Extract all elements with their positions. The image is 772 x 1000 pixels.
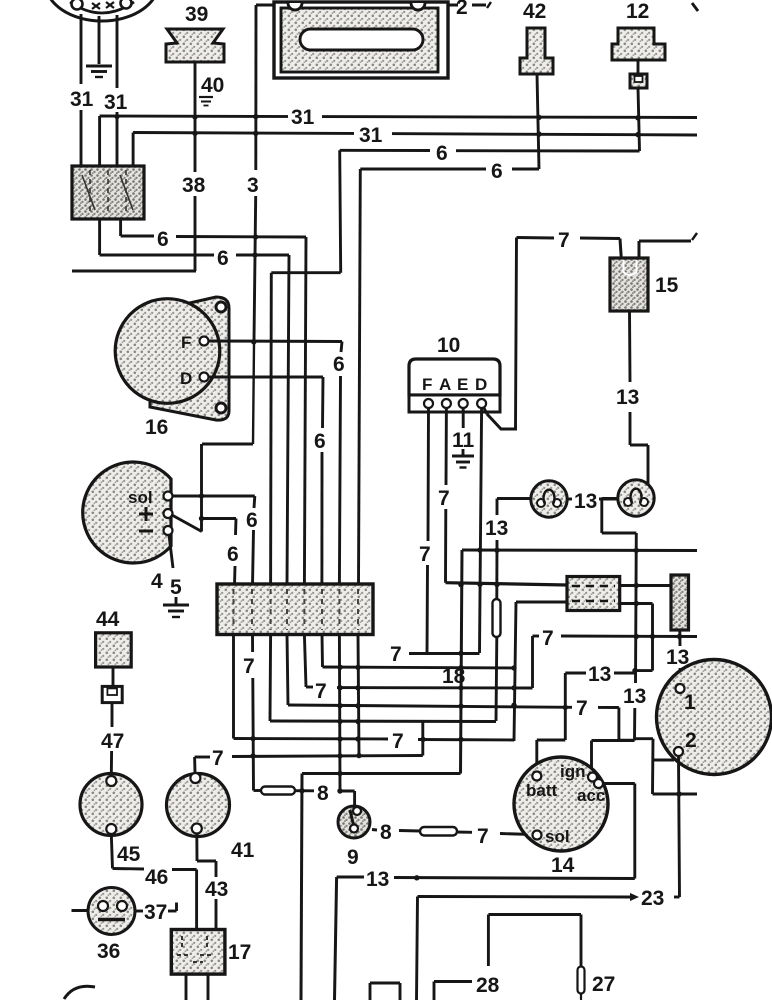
arc bottom-left (component off page) (64, 986, 95, 999)
svg-text:7: 7 (419, 543, 431, 566)
svg-text:6: 6 (227, 543, 239, 566)
wire 44 to connector 47 (112, 667, 115, 687)
wire 6 D to pin6 horizontal (208, 376, 323, 379)
distributor cap terminal circles (72, 0, 132, 10)
svg-text:7: 7 (558, 229, 570, 252)
wire 6 no.2 horizontal (42 to pin8) (360, 168, 539, 171)
wire 6 from 42 down (537, 74, 539, 169)
svg-text:47: 47 (101, 730, 124, 753)
regulator terminal circles (424, 399, 486, 408)
svg-text:40: 40 (201, 74, 224, 97)
generator 16 body (115, 299, 220, 404)
wire 7 regulator F terminal down (427, 408, 429, 654)
wire 6 no.3 drop to connector pin5 (304, 237, 306, 585)
inline fuse capsule (sol wire) (420, 827, 457, 836)
terminal minus of 4 (164, 526, 173, 535)
wire 7 joining F and D bottoms (409, 652, 480, 655)
wire 37 from 36 right (135, 903, 177, 912)
plus sign label (139, 507, 153, 521)
battery 2 outer case (274, 2, 448, 78)
svg-text:15: 15 (655, 274, 679, 297)
capsule connector 27 (578, 967, 585, 1000)
wire 6 from 12 down (638, 88, 640, 151)
wire 8 7 from 9 to ignition sol (372, 830, 533, 835)
svg-text:6: 6 (157, 228, 169, 251)
wire 36 left stub (72, 909, 89, 912)
lamp 36 body (88, 888, 135, 935)
generator terminal F (181, 333, 209, 352)
wire resistor lower-left to riser (514, 602, 567, 741)
small U stub bottom centre (370, 983, 400, 1000)
connector pin7 wire down to 8 line (338, 635, 342, 792)
bus 31 no.1 horizontal (100, 116, 697, 118)
svg-text:D: D (475, 375, 487, 394)
wire 38 bottom run to left (72, 270, 196, 273)
wire staircase to terminal 2 side (635, 739, 698, 794)
svg-text:F: F (422, 375, 432, 394)
svg-text:16: 16 (145, 416, 168, 439)
wire 13 bar down to terminal 1 (678, 630, 681, 684)
svg-text:7: 7 (392, 730, 404, 753)
label 38 (181, 172, 208, 197)
connector 47 (small plug) (102, 686, 122, 702)
wire 7 riser pin5 line (531, 636, 534, 688)
svg-text:2: 2 (456, 0, 468, 19)
svg-text:37: 37 (144, 901, 167, 924)
label 13 (between lamps) (568, 490, 618, 513)
svg-text:31: 31 (359, 124, 383, 147)
svg-text:7: 7 (438, 487, 450, 510)
wire 31 left distributor to coil (80, 14, 83, 166)
terminal 2 (674, 729, 697, 756)
generator terminal D (180, 369, 209, 388)
svg-text:5: 5 (170, 576, 182, 599)
wire D terminal diagonal to riser (484, 408, 517, 429)
svg-text:E: E (457, 375, 468, 394)
label 31 (bus2) (354, 122, 392, 147)
headlamp circle right (terminals 1 2) (657, 660, 772, 775)
svg-text:27: 27 (592, 973, 615, 996)
svg-text:7: 7 (477, 825, 489, 848)
svg-text:17: 17 (228, 941, 251, 964)
svg-text:A: A (439, 375, 451, 394)
wire fuse 15 right lead to edge (639, 233, 697, 262)
svg-text:6: 6 (436, 142, 448, 165)
wire resistor lower-right staircase (620, 604, 653, 671)
fuse box 44 (96, 633, 132, 667)
wire 6 no.4 coil left terminal down (98, 219, 101, 255)
svg-text:9: 9 (347, 846, 359, 869)
svg-text:7: 7 (390, 643, 402, 666)
ground symbol 5 (163, 597, 189, 617)
wire 13 corner down to bottom edge (335, 877, 337, 1000)
wire 6 no.2 drop to connector pin8 (359, 169, 361, 585)
gauge 41 body (167, 773, 230, 837)
svg-text:sol: sol (545, 827, 570, 846)
svg-text:31: 31 (291, 106, 315, 129)
bus 31 no.2 horizontal (133, 133, 697, 136)
flasher box 17 (171, 930, 225, 975)
connector pin4 fan wire y705 (287, 635, 619, 708)
connector pin8 wire down to 7 line (358, 635, 359, 756)
svg-text:acc: acc (577, 786, 605, 805)
svg-text:42: 42 (523, 0, 546, 23)
ground symbol (distributor) (86, 66, 112, 77)
distributor (top, cut off) body (45, 0, 159, 21)
wire 12 to its connector (637, 60, 640, 75)
wire acc staircase down (603, 784, 635, 879)
wire minus terminal to ground 5 (169, 535, 173, 568)
inline connector capsule on 13 wire (493, 599, 501, 637)
svg-text:39: 39 (185, 3, 208, 26)
gauge 45 body (80, 774, 142, 836)
small connector below 12 (630, 74, 647, 88)
terminal plus of 4 (164, 509, 173, 518)
svg-text:13: 13 (616, 386, 639, 409)
wire 6 F to pin7 horizontal (208, 340, 342, 344)
minus sign label (139, 530, 153, 533)
wire 43 from 41 to box 17 (197, 834, 216, 930)
svg-text:36: 36 (97, 940, 120, 963)
wire 7 corner into 41 top (193, 757, 196, 773)
svg-text:8: 8 (380, 821, 392, 844)
horn 39 body (166, 29, 224, 62)
inline fuse capsule (pin2 wire) (261, 787, 295, 795)
svg-text:28: 28 (476, 974, 500, 997)
wire 13 lamp A to capsule drop (496, 499, 531, 722)
wire 13 bus y877 (337, 877, 635, 879)
svg-text:batt: batt (526, 781, 558, 800)
indicator 9 body (338, 806, 370, 838)
wire 6 F drop to connector pin7 (339, 342, 342, 586)
fuse 15 body (610, 258, 648, 311)
wire 7 riser D to fuse bus (516, 238, 517, 430)
wire 6 D drop to connector pin6 (322, 377, 323, 585)
wire 38 from horn down (194, 62, 197, 271)
wire 6 sol to connector pin2 (172, 496, 255, 585)
wire 23 left drop to bottom edge (417, 897, 418, 1000)
svg-text:1: 1 (684, 691, 696, 714)
wire lamp B zigzag down (602, 499, 637, 741)
wire 8 horizontal with fuse capsule (254, 791, 355, 807)
wire 6 no.3 horizontal (121, 236, 306, 237)
wire 3 corner to plus terminal (171, 444, 253, 532)
wire 31 right distributor to coil (116, 15, 119, 166)
terminal acc (577, 779, 605, 805)
generator 16 mounting plate (150, 297, 229, 420)
regulator terminal letters F A E D (422, 375, 487, 394)
wire 7 horizontal y636 (533, 635, 698, 638)
terminal sol of 4 (164, 492, 173, 501)
wire 13 fuse 15 down (630, 311, 649, 484)
svg-text:8: 8 (317, 782, 329, 805)
svg-text:6: 6 (333, 353, 345, 376)
label 31 (bus1) (288, 104, 322, 129)
wire resistor upper-right to bar (620, 584, 671, 587)
ground symbol 11 (452, 449, 474, 468)
wire 6 no.1 drop to connector pin3 (269, 273, 273, 585)
wire 28 27 inverted U component (488, 915, 581, 967)
wire ign staircase (592, 741, 635, 773)
svg-text:13: 13 (574, 490, 597, 513)
svg-text:10: 10 (437, 334, 460, 357)
wire 7 y755 to gauge 41 (195, 756, 423, 758)
wire batt staircase (537, 673, 566, 772)
wire regulator A to resistor (446, 583, 568, 585)
svg-text:45: 45 (117, 843, 141, 866)
svg-text:13: 13 (485, 517, 508, 540)
connector plug 42 (520, 28, 553, 74)
wire 6 no.1 jog left at y272.7 (271, 271, 340, 274)
ignition coil (hatched box) (72, 166, 144, 219)
wire 6 no.4 horizontal (100, 254, 289, 257)
terminal batt (526, 772, 558, 801)
connector pin1 fan wire y738 (234, 635, 515, 741)
svg-text:14: 14 (551, 854, 575, 877)
warning lamp A body (531, 481, 567, 517)
wire pin4 branch right staircase (619, 708, 635, 741)
wire riser joining y721 and y755 (421, 722, 424, 756)
connector pin2 fan wire to fuse 8 (253, 635, 254, 791)
terminal ign (560, 762, 597, 782)
wire battery top-left stub (256, 4, 274, 7)
tick mark top right (692, 3, 698, 11)
svg-text:F: F (181, 333, 191, 352)
terminal 1 (676, 684, 697, 714)
svg-text:46: 46 (145, 866, 168, 889)
svg-text:12: 12 (626, 0, 649, 23)
bus 31 no.2 corner down into coil (132, 133, 135, 167)
wire 3 battery left down (253, 5, 256, 444)
svg-text:3: 3 (247, 174, 259, 197)
svg-text:7: 7 (243, 655, 255, 678)
ground symbol 40 (199, 97, 213, 106)
svg-text:44: 44 (96, 608, 120, 631)
wire 18 vertical (301, 550, 462, 1000)
wire fuse 15 left lead (620, 239, 622, 263)
svg-text:6: 6 (491, 160, 503, 183)
wire 7 regulator A terminal down (444, 408, 448, 583)
wire E terminal to ground 11 (462, 408, 465, 428)
wire 7 regulator D terminal down (480, 408, 482, 653)
wire 47 down to gauge 45 (110, 703, 114, 776)
bus 31 no.1 corner down into coil (98, 116, 101, 166)
connector plug 12 (612, 28, 665, 60)
svg-text:6: 6 (246, 509, 258, 532)
junction blobs (114, 114, 682, 881)
svg-text:7: 7 (315, 680, 327, 703)
wire 46 from 45 to box 17 (111, 834, 196, 930)
ignition switch 14 body (514, 757, 608, 851)
svg-text:31: 31 (70, 88, 94, 111)
svg-text:6: 6 (314, 430, 326, 453)
svg-text:13: 13 (588, 663, 611, 686)
svg-text:23: 23 (641, 887, 664, 910)
battery terminal notches (288, 3, 425, 10)
wire 6 no.1 horizontal (12 to pin3) (340, 149, 640, 153)
connector pin3 fan wire y721 (270, 635, 496, 722)
ballast resistor (dashed box) (567, 577, 620, 611)
fuse bar component (671, 575, 689, 630)
svg-text:41: 41 (231, 839, 255, 862)
svg-text:43: 43 (205, 878, 228, 901)
wire 6 no.3 coil right terminal down (119, 219, 122, 236)
wire battery top-right stub and label 2 (448, 0, 491, 19)
svg-text:sol: sol (128, 488, 153, 507)
svg-text:31: 31 (104, 91, 128, 114)
wire 13 horizontal y673 to batt staircase (565, 672, 635, 675)
wire distributor middle to ground (98, 16, 101, 64)
svg-text:13: 13 (366, 868, 389, 891)
svg-text:4: 4 (151, 570, 163, 593)
svg-text:7: 7 (212, 747, 224, 770)
wire 6 no.1 vertical drop at x340 (340, 150, 341, 272)
wire 6 no.4 drop to connector pin4 (287, 255, 289, 585)
bus 7 horizontal y550 (462, 549, 697, 553)
wire terminal 2 down to 23 (679, 756, 680, 897)
wire 28 corner from bottom edge (434, 982, 472, 1000)
wire 7 bus to fuse 15 (517, 238, 621, 239)
svg-text:7: 7 (542, 627, 554, 650)
connector block 18 strip (217, 584, 373, 635)
svg-text:13: 13 (623, 685, 646, 708)
svg-text:2: 2 (685, 729, 697, 752)
wire 23 horizontal (418, 893, 680, 901)
wire box 17 bottom leads (186, 974, 208, 1000)
svg-text:ign: ign (560, 762, 586, 781)
wire 6 plus node to connector pin1 (202, 519, 237, 586)
svg-text:D: D (180, 369, 192, 388)
svg-text:38: 38 (182, 174, 206, 197)
terminal sol (ignition) (533, 827, 570, 846)
connector pin6 fan wire y667 (322, 635, 514, 669)
svg-text:6: 6 (217, 247, 229, 270)
svg-text:7: 7 (576, 697, 588, 720)
connector pin5 fan wire y687 (304, 635, 532, 689)
svg-text:11: 11 (452, 429, 475, 452)
warning lamp B body (618, 480, 654, 516)
voltage regulator 10 box (409, 359, 500, 412)
starter solenoid 4 body (83, 462, 171, 563)
